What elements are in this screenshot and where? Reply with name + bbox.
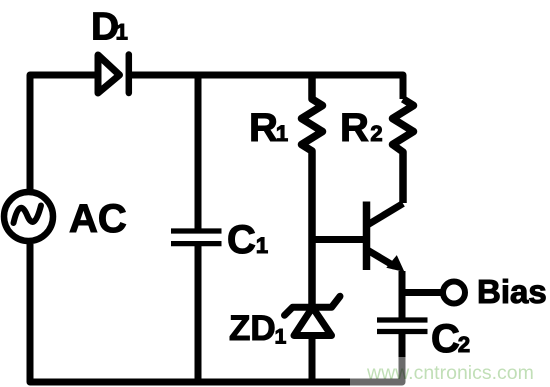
transistor Q1 bbox=[367, 202, 405, 273]
emitter bbox=[367, 250, 396, 267]
zener diode ZD1 bbox=[285, 296, 341, 382]
wire: top rail from diode cathode to top-right corner (R2) bbox=[129, 75, 403, 99]
diode D1 bbox=[98, 55, 129, 94]
wire: base wire from R1/ZD1 node to transistor base bbox=[312, 236, 367, 243]
capacitor C2 bbox=[377, 320, 428, 332]
capacitor C1 bbox=[171, 231, 222, 244]
AC source U1 bbox=[4, 192, 53, 241]
terminal Bias bbox=[443, 282, 465, 304]
svg-text:AC: AC bbox=[69, 197, 127, 241]
wire: emitter/C2 vertical with Bias tap bbox=[399, 271, 406, 318]
base bar bbox=[363, 202, 371, 271]
wire: left branch from AC top to top-left corner to diode anode bbox=[30, 75, 97, 190]
resistor R1 bbox=[302, 75, 323, 304]
wire: C1 top branch bbox=[195, 75, 202, 229]
wire: C1 bottom branch to bottom rail bbox=[195, 245, 202, 382]
watermark overlay bbox=[350, 357, 550, 387]
svg-text:Bias: Bias bbox=[477, 273, 547, 310]
wire: bias tap bbox=[402, 289, 441, 296]
wire: left branch AC bottom to bottom-left corner, bottom rail, up to C2 bottom plate bbox=[30, 244, 402, 382]
resistor R2 bbox=[393, 99, 414, 203]
svg-text:www.cntronics.com: www.cntronics.com bbox=[366, 362, 534, 384]
wire: zener anode to bottom rail bbox=[309, 336, 316, 383]
collector bbox=[367, 204, 404, 226]
